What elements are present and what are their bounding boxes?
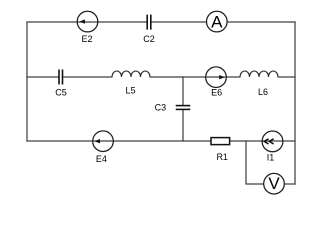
svg-text:E2: E2 xyxy=(81,34,92,44)
svg-text:C3: C3 xyxy=(155,103,167,113)
svg-text:L6: L6 xyxy=(258,87,268,97)
svg-text:E6: E6 xyxy=(211,88,222,98)
svg-text:C5: C5 xyxy=(55,88,67,98)
svg-text:L5: L5 xyxy=(125,86,135,96)
svg-text:C2: C2 xyxy=(143,34,155,44)
svg-text:V: V xyxy=(268,174,280,193)
svg-text:A: A xyxy=(211,13,223,32)
svg-text:E4: E4 xyxy=(96,154,107,164)
svg-text:I1: I1 xyxy=(267,153,275,163)
svg-text:R1: R1 xyxy=(216,152,228,162)
